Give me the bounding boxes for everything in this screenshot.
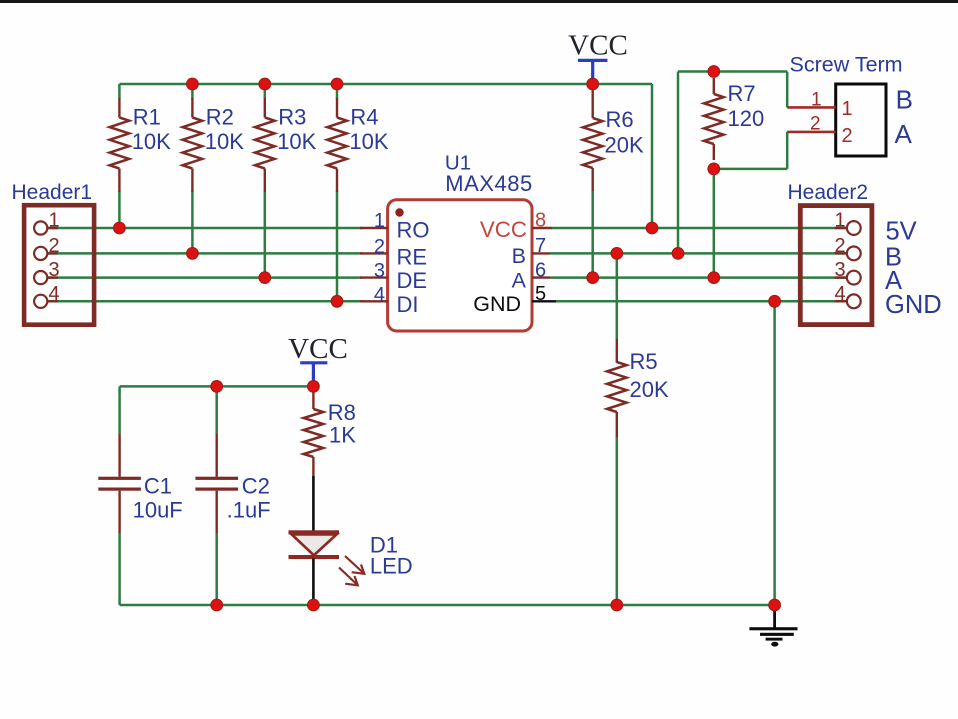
resistor R1 10K [110,98,172,192]
svg-text:1K: 1K [329,423,356,448]
junction [331,78,343,90]
Screw Term pin 2 wire A [787,114,912,150]
resistor R4 10K [327,98,389,192]
power VCC (top) [568,30,628,85]
junction [611,599,623,611]
svg-text:A: A [895,119,913,149]
wire R4 column [336,84,339,99]
junction [259,272,271,284]
wire R2 column [191,84,194,99]
svg-text:1: 1 [811,90,822,111]
svg-text:R1: R1 [133,105,161,130]
junction [708,272,720,284]
svg-text:10uF: 10uF [133,498,183,523]
svg-text:Header1: Header1 [12,181,93,204]
Header1 pin 1 [34,210,59,235]
wire net B row (U1 pin7 to Header2 pin2) [550,252,847,255]
wire R3 column [264,84,267,99]
resistor R2 10K [183,98,245,192]
junction [187,78,199,90]
junction [708,163,720,175]
svg-text:6: 6 [535,259,546,281]
svg-text:2: 2 [48,235,59,257]
junction [646,222,658,234]
wire rail corner down to VCC pin row [651,84,654,228]
wire R6 column lower (to A row) [591,190,594,278]
U1 pin 5 GND [473,283,556,316]
junction [769,295,781,307]
svg-text:4: 4 [374,284,385,306]
svg-text:1: 1 [48,210,59,232]
junction [259,78,271,90]
svg-text:DI: DI [397,292,419,317]
wire R7 loop left branch (to B row) [678,70,714,73]
wire R7 bottom down to A row [713,169,716,278]
junction [672,248,684,260]
junction [187,248,199,260]
wire VCC top rail [119,83,652,86]
svg-text:2: 2 [834,235,845,257]
svg-text:RE: RE [397,245,428,270]
Header2 pin 2 B [834,235,902,272]
Header2 pin 4 GND [834,283,941,319]
svg-text:VCC: VCC [288,333,348,365]
wire R7 bottom to screw term branch [714,168,787,171]
svg-text:10K: 10K [277,129,316,154]
wire GND vertical (Header2 pin4 row to ground) [773,301,776,605]
svg-text:C2: C2 [242,474,270,499]
svg-text:5: 5 [535,283,546,305]
svg-text:R8: R8 [328,400,356,425]
svg-text:3: 3 [374,260,385,282]
U1 pin 8 VCC [480,210,552,243]
wire net DI row (Header1 pin4 to U1 pin4) [47,300,362,303]
svg-text:20K: 20K [630,377,669,402]
junction [708,66,720,78]
wire net VCC row (U1 pin8 to Header2 pin1) [552,227,847,230]
svg-text:5V: 5V [886,218,917,246]
svg-text:2: 2 [842,125,853,147]
svg-text:C1: C1 [144,474,172,499]
svg-text:4: 4 [48,283,59,305]
junction [587,78,599,90]
svg-text:4: 4 [834,283,845,305]
svg-text:R5: R5 [630,349,658,374]
svg-text:LED: LED [370,554,413,579]
junction [211,381,223,393]
Header2 pin 1 5V [834,210,916,246]
svg-text:R3: R3 [278,105,306,130]
svg-text:VCC: VCC [568,30,628,62]
svg-text:B: B [512,244,526,268]
svg-text:RO: RO [397,218,430,243]
resistor R6 20K [583,87,644,191]
Header2 pin 3 A [834,259,902,295]
capacitor C1 10uF [98,434,182,533]
junction [114,222,126,234]
wire R7 top to screw term branch [714,70,787,73]
wire net RE row (Header1 pin2 to U1 pin2) [47,252,362,255]
wire bottom rail [120,604,775,607]
svg-text:R2: R2 [206,105,234,130]
wire net RO row (Header1 pin1 to U1 pin1) [47,227,362,230]
junction [308,599,320,611]
LED D1 [289,476,413,605]
svg-text:GND: GND [885,291,942,319]
svg-text:8: 8 [535,210,546,232]
U1 pin 6 A [512,259,550,292]
wire R5 column upper (B row down) [616,253,619,340]
U1 pin 4 DI [360,284,419,317]
resistor R5 20K [607,339,669,437]
svg-text:1: 1 [842,98,853,120]
svg-text:3: 3 [834,259,845,281]
svg-text:3: 3 [48,259,59,281]
junction [769,599,781,611]
svg-text:Header2: Header2 [788,181,869,204]
Header1 pin 3 [34,259,59,284]
U1 pin 7 B [512,235,550,268]
wire R1 column [118,84,121,99]
resistor R7 120 [704,78,764,160]
svg-text:R7: R7 [728,81,756,106]
svg-text:2: 2 [810,114,821,135]
svg-text:B: B [896,84,913,114]
svg-text:7: 7 [535,235,546,257]
svg-text:10K: 10K [349,129,388,154]
capacitor C2 .1uF [195,434,270,533]
power VCC (bottom, LED supply) [288,333,348,386]
wire C2 column [215,386,218,434]
junction [308,381,320,393]
svg-text:120: 120 [728,106,765,131]
svg-text:1: 1 [834,210,845,232]
wire R5 column lower (to bottom rail) [616,436,619,605]
wire C1 column [118,386,121,434]
resistor R3 10K [255,98,317,192]
U1 pin 3 DE [360,260,427,293]
svg-text:Screw Term: Screw Term [790,53,903,77]
resistor R8 1K [304,386,357,476]
svg-text:GND: GND [473,292,521,316]
svg-text:R4: R4 [350,105,378,130]
svg-text:R6: R6 [606,107,634,132]
ground [749,605,797,647]
Header1 pin 2 [34,235,59,260]
wire net GND row (U1 pin5 to Header2 pin4) [556,300,847,303]
junction [211,599,223,611]
svg-text:MAX485: MAX485 [445,171,532,196]
svg-text:DE: DE [397,268,428,293]
svg-text:10K: 10K [132,129,171,154]
svg-text:.1uF: .1uF [227,498,271,523]
connector Screw Term [790,53,903,157]
svg-text:10K: 10K [205,129,244,154]
connector Header2 [788,181,872,324]
connector Header1 [12,181,95,325]
wire bottom-section top (VCC to C1) [120,385,314,388]
U1 pin 1 RO [360,210,430,243]
svg-text:VCC: VCC [480,217,527,242]
Screw Term pin 1 wire B [787,84,913,120]
wire net A row (U1 pin6 to Header2 pin3) [550,276,847,279]
U1 pin 2 RE [360,236,427,270]
svg-text:A: A [512,268,527,292]
svg-text:20K: 20K [605,133,644,158]
Header1 pin 4 [34,283,59,308]
svg-text:2: 2 [374,236,385,258]
IC U1 MAX485 [388,152,533,332]
junction [611,248,623,260]
wire net DE row (Header1 pin3 to U1 pin3) [47,276,362,279]
svg-text:1: 1 [374,210,385,232]
junction [331,295,343,307]
junction [587,272,599,284]
